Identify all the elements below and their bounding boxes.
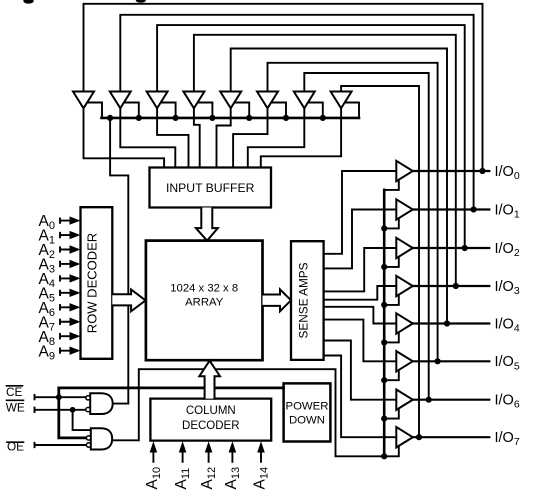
wire sense-amp out 1 to output buffer O2 bbox=[324, 210, 397, 269]
wire input-bus I/O3 (triangle B4 to I/O3 line) bbox=[194, 35, 456, 286]
wire output of buffer B6 into input buffer bbox=[233, 108, 267, 167]
wire tri-state enable bus (horizontal) bbox=[102, 117, 360, 120]
wire WE input line bbox=[35, 408, 87, 412]
wire input-bus I/O5 (triangle B6 to I/O5 line) bbox=[268, 63, 438, 362]
G2 input bubble (CE) bbox=[86, 436, 90, 440]
decorative omitted: none bbox=[23, 0, 146, 4]
svg-text:INPUT BUFFER: INPUT BUFFER bbox=[166, 181, 255, 195]
input A12 arrow bbox=[208, 452, 210, 462]
node I/O1 junction bbox=[471, 206, 477, 212]
label A11 bbox=[173, 468, 192, 490]
wire buffer O5 enable bbox=[384, 332, 399, 342]
wire WE branch down to G2 bbox=[73, 410, 91, 430]
wire I/O1 output line bbox=[413, 208, 490, 210]
svg-text:POWER: POWER bbox=[285, 400, 328, 412]
gate G2 (NAND, active-low inputs, CE*OE+WE) bbox=[91, 428, 112, 449]
wire input-bus I/O2 (triangle B3 to I/O2 line) bbox=[157, 25, 465, 248]
svg-text:ROW DECODER: ROW DECODER bbox=[84, 233, 99, 333]
wire output of buffer B5 into input buffer bbox=[217, 108, 231, 167]
block 1024x32x8 ARRAY bbox=[146, 241, 263, 361]
wire enable stub of buffer B5 bbox=[234, 103, 250, 118]
svg-text:1024 x 32 x 8: 1024 x 32 x 8 bbox=[170, 283, 238, 295]
wire CE distribution (thick): up to POWER DOWN, down to G2 bbox=[59, 388, 284, 438]
svg-text:ARRAY: ARRAY bbox=[185, 296, 224, 308]
output buffer O5 (pointing right) bbox=[396, 313, 413, 333]
svg-text:COLUMN: COLUMN bbox=[186, 405, 236, 417]
output buffer O8 (pointing right) bbox=[396, 427, 413, 447]
label A14 bbox=[252, 467, 271, 490]
input A13 arrow bbox=[231, 452, 233, 462]
node enable bus end junction bbox=[381, 453, 387, 459]
wire I/O2 output line bbox=[413, 247, 490, 249]
G1 input bubble (CE) bbox=[86, 396, 90, 400]
node enable-bus junction bbox=[136, 115, 142, 121]
input buffer B4 (tri-state, pointing down) bbox=[183, 92, 204, 109]
arrow input-buffer to array bbox=[196, 208, 218, 241]
input A7 arrow bbox=[60, 320, 70, 324]
input buffer B1 (tri-state, pointing down) bbox=[73, 92, 94, 109]
input A9 arrow bbox=[60, 348, 70, 352]
wire input-bus I/O7 (triangle B8 to I/O7 line) bbox=[341, 86, 419, 437]
wire G2 output to output-enable bus bbox=[112, 369, 384, 456]
svg-text:CE: CE bbox=[6, 385, 23, 399]
label A10 bbox=[144, 467, 163, 490]
node I/O3 junction bbox=[453, 283, 459, 289]
output buffer O1 (pointing right) bbox=[396, 161, 413, 181]
block COLUMN DECODER bbox=[150, 399, 271, 441]
node I/O6 junction bbox=[426, 397, 432, 403]
node enable-bus junction bbox=[320, 115, 326, 121]
node I/O0 junction bbox=[479, 168, 485, 174]
node WE junction bbox=[70, 407, 76, 413]
input A14 arrow bbox=[260, 452, 262, 462]
svg-text:DECODER: DECODER bbox=[182, 420, 240, 432]
wire sense-amp out 2 to output buffer O3 bbox=[324, 248, 397, 291]
wire enable stub of buffer B1 bbox=[87, 103, 103, 118]
node enable junction O7 bbox=[381, 416, 387, 422]
arrow column-decoder to array bbox=[199, 361, 220, 399]
wire I/O0 output line bbox=[413, 170, 490, 172]
wire output of buffer B7 into input buffer bbox=[248, 108, 304, 167]
block POWER DOWN bbox=[284, 383, 331, 441]
output buffer O4 (pointing right) bbox=[396, 276, 413, 296]
G1 input bubble (WE) bbox=[86, 407, 90, 411]
output buffer O3 (pointing right) bbox=[396, 238, 413, 258]
wire sense-amp out 4 to output buffer O5 bbox=[324, 307, 397, 324]
wire enable stub of buffer B4 bbox=[197, 103, 213, 118]
wire I/O5 output line bbox=[413, 360, 490, 362]
wire output of buffer B3 into input buffer bbox=[157, 108, 188, 167]
node enable-bus junction bbox=[173, 115, 179, 121]
wire buffer O3 enable bbox=[384, 257, 399, 267]
wire input-bus I/O6 (triangle B7 to I/O6 line) bbox=[304, 73, 428, 400]
arrow array to sense-amps bbox=[263, 289, 292, 311]
svg-text:WE: WE bbox=[6, 400, 25, 414]
output buffer O2 (pointing right) bbox=[396, 199, 413, 219]
wire buffer O2 enable bbox=[384, 218, 399, 228]
wire sense-amp out 5 to output buffer O6 bbox=[324, 320, 397, 362]
wire sense-amp out 0 to output buffer O1 bbox=[324, 171, 397, 254]
output buffer O6 (pointing right) bbox=[396, 351, 413, 371]
wire buffer O8 enable bbox=[384, 446, 399, 456]
node enable junction O6 bbox=[381, 377, 387, 383]
node enable junction O5 bbox=[381, 339, 387, 345]
input buffer B2 (tri-state, pointing down) bbox=[110, 92, 131, 109]
wire output of buffer B2 into input buffer bbox=[120, 108, 175, 167]
wire I/O7 output line bbox=[413, 436, 490, 438]
wire I/O4 output line bbox=[413, 322, 490, 324]
block INPUT BUFFER bbox=[150, 168, 272, 208]
arrow row-decoder to array bbox=[112, 290, 145, 312]
node enable-bus junction bbox=[209, 115, 215, 121]
node I/O2 junction bbox=[462, 245, 468, 251]
wire G1 output to enable bus (with jog) bbox=[110, 118, 128, 404]
node enable junction O4 bbox=[381, 302, 387, 308]
input A11 arrow bbox=[182, 452, 184, 462]
wire OE input line bbox=[35, 443, 87, 447]
input buffer B7 (tri-state, pointing down) bbox=[294, 92, 315, 109]
node enable-bus junction bbox=[246, 115, 252, 121]
wire input-bus I/O0 (triangle B1 to I/O0 line) bbox=[84, 4, 483, 171]
wire sense-amp out 7 to output buffer O8 bbox=[324, 356, 397, 438]
wire buffer O7 enable bbox=[384, 408, 399, 418]
wire output of buffer B8 into input buffer bbox=[261, 108, 341, 167]
label A13 bbox=[223, 467, 242, 490]
svg-text:SENSE AMPS: SENSE AMPS bbox=[296, 262, 310, 338]
wire buffer O1 enable bbox=[384, 180, 399, 190]
gate G1 (NAND, active-low inputs, CE*WE) bbox=[90, 393, 113, 414]
wire sense-amp out 6 to output buffer O7 bbox=[324, 341, 397, 400]
wire enable stub of buffer B6 bbox=[271, 103, 287, 118]
wire input-bus I/O4 (triangle B5 to I/O4 line) bbox=[231, 49, 447, 324]
node I/O4 junction bbox=[444, 320, 450, 326]
wire sense-amp out 3 to output buffer O4 bbox=[324, 286, 397, 300]
node enable-bus junction bbox=[107, 115, 113, 121]
node enable junction O3 bbox=[381, 264, 387, 270]
input A1 arrow bbox=[60, 233, 70, 237]
wire enable stub of buffer B8 bbox=[344, 103, 359, 118]
input A0 arrow bbox=[60, 218, 70, 222]
input A10 arrow bbox=[152, 452, 154, 462]
wire enable stub of buffer B3 bbox=[160, 103, 176, 118]
node CE junction bbox=[56, 394, 62, 400]
wire enable stub of buffer B7 bbox=[307, 103, 323, 118]
wire I/O3 output line bbox=[413, 285, 490, 287]
input buffer B5 (tri-state, pointing down) bbox=[220, 92, 241, 109]
wire input-bus I/O1 (triangle B2 to I/O1 line) bbox=[120, 15, 473, 210]
wire enable stub of buffer B2 bbox=[123, 103, 139, 118]
input A2 arrow bbox=[60, 247, 70, 251]
label A12 bbox=[199, 467, 218, 490]
node I/O7 junction bbox=[416, 434, 422, 440]
wire buffer O4 enable bbox=[384, 295, 399, 305]
wire CE input line bbox=[35, 395, 87, 399]
input A3 arrow bbox=[60, 262, 70, 266]
input A8 arrow bbox=[60, 334, 70, 338]
input buffer B6 (tri-state, pointing down) bbox=[257, 92, 278, 109]
G2 input bubble (OE) bbox=[86, 443, 90, 447]
node I/O5 junction bbox=[435, 358, 441, 364]
input A4 arrow bbox=[60, 276, 70, 280]
svg-text:DOWN: DOWN bbox=[289, 415, 325, 427]
block ROW DECODER bbox=[81, 207, 113, 359]
input A6 arrow bbox=[60, 305, 70, 309]
input A5 arrow bbox=[60, 291, 70, 295]
wire buffer O6 enable bbox=[384, 370, 399, 380]
wire output of buffer B1 into input buffer bbox=[84, 108, 165, 167]
wire I/O6 output line bbox=[413, 399, 490, 401]
wire output of buffer B4 into input buffer bbox=[194, 108, 200, 167]
output buffer O7 (pointing right) bbox=[396, 390, 413, 410]
block SENSE AMPS bbox=[291, 241, 324, 360]
node enable junction O2 bbox=[381, 225, 387, 231]
node enable-bus junction bbox=[283, 115, 289, 121]
input buffer B8 (tri-state, pointing down) bbox=[331, 92, 352, 109]
wire output-enable bus (vertical) bbox=[383, 190, 386, 456]
input buffer B3 (tri-state, pointing down) bbox=[147, 92, 168, 109]
